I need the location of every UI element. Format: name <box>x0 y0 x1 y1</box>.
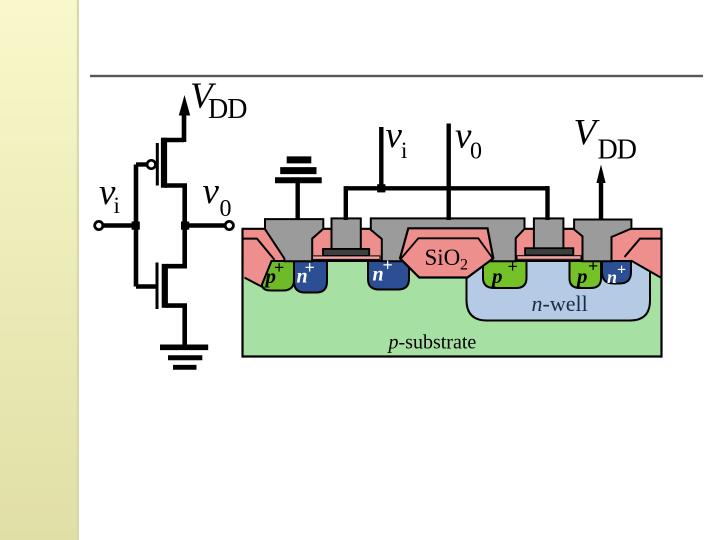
label vo (cross-section) <box>455 116 482 165</box>
svg-text:0: 0 <box>220 196 232 222</box>
label SiO2 <box>425 245 469 274</box>
svg-text:+: + <box>508 257 518 277</box>
PMOS gate electrode <box>525 248 573 255</box>
svg-text:+: + <box>383 255 393 275</box>
transistor Q1 NMOS <box>136 226 185 346</box>
label n+ NMOS source <box>297 258 315 288</box>
p+ region PMOS drain <box>483 261 527 288</box>
svg-text:DD: DD <box>208 94 247 125</box>
NMOS gate electrode <box>323 249 369 256</box>
svg-text:+: + <box>588 256 598 276</box>
svg-text:v: v <box>203 171 220 212</box>
label vo (schematic) <box>203 171 232 222</box>
svg-text:+: + <box>617 262 626 279</box>
p+ region substrate tie <box>262 261 294 291</box>
region p-substrate <box>243 229 662 357</box>
svg-text:n: n <box>607 267 617 287</box>
supply arrow VDD (schematic) <box>179 95 190 142</box>
junction dot output node <box>181 222 189 230</box>
wire input <box>101 223 136 227</box>
label n+ NMOS drain <box>373 255 393 286</box>
svg-text:v: v <box>386 115 403 156</box>
oxide left bird's beak wedge <box>244 260 275 287</box>
metal contact NMOS gate <box>332 218 361 251</box>
svg-text:-well: -well <box>543 291 588 316</box>
svg-text:n: n <box>532 291 543 316</box>
label p+ PMOS drain <box>490 257 518 289</box>
svg-text:DD: DD <box>598 135 637 166</box>
svg-text:0: 0 <box>470 139 482 165</box>
svg-text:-substrate: -substrate <box>399 332 477 354</box>
ground (schematic) <box>160 347 208 367</box>
terminal vo <box>225 221 233 229</box>
metal contact PMOS gate <box>534 218 564 250</box>
svg-text:p: p <box>575 264 588 288</box>
label VDD (schematic) <box>190 76 247 125</box>
wire vo (cross-section) <box>447 124 451 221</box>
svg-text:+: + <box>274 258 284 278</box>
oxide right wedge below surface <box>630 260 662 278</box>
wire vi (cross-section) <box>346 127 548 220</box>
n+ region NMOS drain <box>368 261 409 290</box>
svg-text:i: i <box>401 138 407 163</box>
field oxide band <box>243 229 662 261</box>
junction dot input node <box>132 222 140 230</box>
svg-text:p: p <box>490 264 503 288</box>
svg-text:+: + <box>305 258 315 278</box>
label p+ substrate tie <box>264 258 285 289</box>
label p+ PMOS source <box>575 256 598 288</box>
junction dot vi wire <box>377 184 385 192</box>
metal contact vo <box>371 218 525 261</box>
wire input gate rail <box>134 165 139 287</box>
metal contact ground/source <box>265 219 323 261</box>
ground (cross-section, inverted) <box>275 160 322 220</box>
SiO2 field oxide block <box>400 228 493 277</box>
p+ region PMOS source <box>570 261 602 288</box>
oxide right inner lines <box>625 239 663 257</box>
label p-substrate <box>387 332 477 354</box>
NMOS gate oxide <box>313 256 381 260</box>
wire output <box>185 223 227 227</box>
SiO2 inner outline <box>402 238 493 258</box>
n+ region NMOS source <box>294 261 327 293</box>
n+ region well tie <box>602 261 631 284</box>
silicon surface line <box>273 260 401 262</box>
label vi (cross-section) <box>386 115 408 163</box>
svg-text:p: p <box>387 332 399 354</box>
svg-text:i: i <box>114 193 120 218</box>
svg-text:2: 2 <box>460 257 468 274</box>
oxide top boundary line <box>242 228 663 230</box>
label VDD (cross-section) <box>574 113 637 166</box>
outer boundary re-stroke <box>243 229 662 357</box>
oxide left inner line <box>244 239 275 260</box>
supply arrow VDD (cross-section) <box>596 165 605 221</box>
PMOS gate oxide <box>517 256 581 260</box>
label n-well <box>532 291 588 316</box>
label n+ well tie <box>607 262 626 288</box>
region n-well <box>467 261 651 321</box>
svg-text:SiO: SiO <box>425 245 461 270</box>
terminal vi <box>95 221 103 229</box>
label vi (schematic) <box>99 172 120 218</box>
metal contact VDD <box>574 220 631 262</box>
transistor Q2 PMOS <box>136 138 185 226</box>
